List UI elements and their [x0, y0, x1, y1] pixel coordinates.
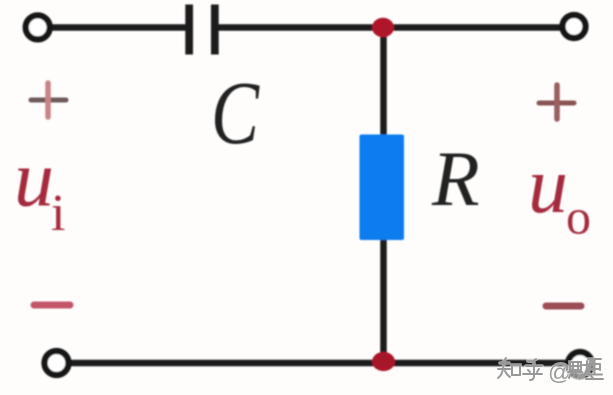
- terminal top-right: [563, 15, 586, 38]
- char mo halo: [568, 359, 603, 379]
- wire top-right segment: [218, 24, 561, 31]
- svg-text:u: u: [528, 142, 568, 230]
- wire vertical branch: [380, 28, 387, 364]
- char zhi: [498, 358, 542, 380]
- minus sign right: [546, 303, 581, 310]
- svg-text:C: C: [211, 62, 260, 162]
- capacitor C1 left plate: [185, 5, 193, 55]
- label C: [211, 62, 260, 162]
- char zhi halo: [498, 358, 542, 380]
- svg-text:R: R: [431, 135, 480, 222]
- capacitor C1 right plate: [211, 5, 219, 55]
- watermark zhihu: [498, 358, 542, 380]
- resistor R body: [360, 135, 405, 241]
- plus sign right: [539, 85, 574, 119]
- plus sign left: [31, 83, 66, 117]
- minus sign left: [34, 302, 70, 309]
- char mo: [568, 359, 603, 379]
- node junction bottom: [372, 352, 395, 371]
- char hu: [523, 359, 542, 380]
- wire bottom segment: [70, 360, 567, 367]
- svg-text:u: u: [14, 136, 54, 224]
- char li: [586, 359, 603, 379]
- node junction top: [372, 18, 394, 38]
- terminal top-left: [26, 15, 50, 39]
- svg-text:o: o: [566, 189, 591, 245]
- terminal bottom-right: [568, 352, 592, 376]
- wire top-left segment: [51, 24, 186, 31]
- svg-text:i: i: [51, 185, 65, 242]
- terminal bottom-left: [45, 351, 69, 375]
